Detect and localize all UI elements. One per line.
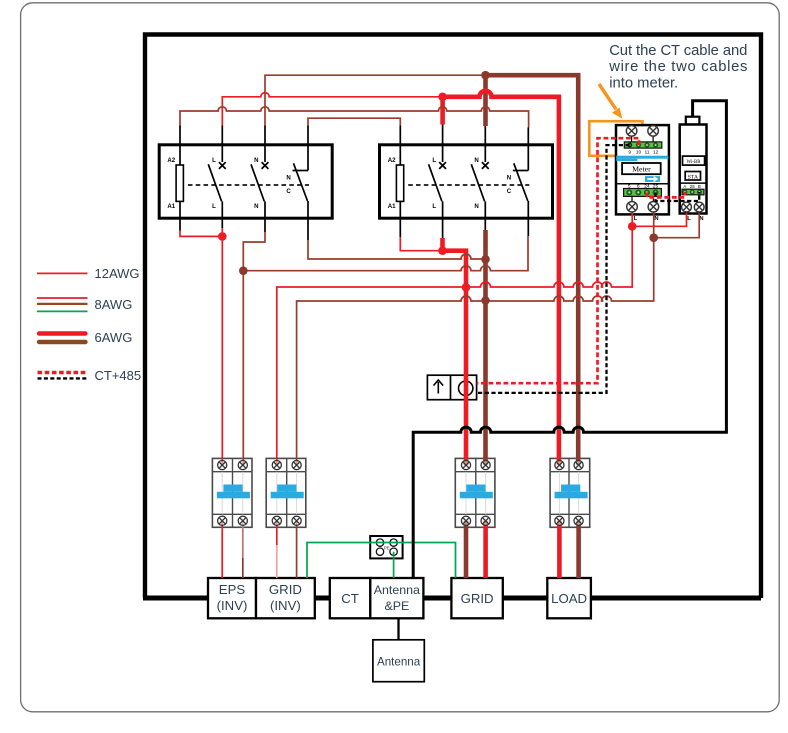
svg-text:A1: A1 — [167, 203, 175, 210]
legend 6AWG red line — [39, 331, 86, 335]
meter top screws — [626, 126, 658, 137]
meter-wifi black dashed cable — [656, 192, 700, 201]
node K2 L/A1 — [438, 246, 447, 255]
box CT — [330, 578, 371, 618]
legend CT red dashed line — [38, 371, 88, 374]
legend 8AWG red line — [37, 297, 88, 299]
svg-text:11: 11 — [644, 149, 649, 155]
box GRID (INV) — [256, 578, 315, 618]
wire 6AWG brown N stub contactor K2 — [483, 75, 488, 126]
svg-text:(INV): (INV) — [217, 598, 248, 613]
box EPS (INV) — [208, 578, 256, 618]
svg-text:L: L — [432, 203, 436, 210]
svg-text:Wi-BR: Wi-BR — [687, 160, 702, 165]
bottom bus line — [143, 596, 761, 601]
node K1 N bottom — [239, 266, 248, 275]
svg-text:N: N — [654, 216, 658, 222]
wire breaker QF2 L to meter L — [277, 211, 632, 465]
svg-text:C: C — [286, 188, 291, 195]
legend 8AWG brown line — [37, 303, 88, 305]
orange highlight box — [589, 121, 642, 156]
wire 6AWG red below breaker QF4 — [557, 521, 562, 578]
wire K1-L top to node — [222, 93, 442, 126]
legend 12AWG red line — [37, 272, 88, 274]
svg-text:A2: A2 — [167, 157, 175, 164]
wire breaker QF1 N down (dark part) — [242, 558, 244, 578]
CT sensor symbol — [427, 375, 476, 400]
wire breaker QF1 N down (light part) — [242, 521, 244, 558]
svg-text:wire the two cables: wire the two cables — [608, 59, 747, 75]
svg-text:N: N — [474, 203, 478, 210]
svg-text:GRID: GRID — [461, 591, 494, 606]
svg-text:(INV): (INV) — [270, 598, 301, 613]
node meter L — [628, 222, 637, 231]
meter-wifi red dashed cable — [647, 192, 685, 197]
svg-text:CT+485: CT+485 — [95, 368, 142, 383]
wire breaker QF2 N to meter N — [297, 211, 654, 465]
wire breaker QF2 L down (red part) — [276, 521, 278, 545]
antenna link wire — [397, 618, 399, 640]
wire breaker QF1 L down — [221, 521, 223, 578]
svg-text:L: L — [432, 157, 436, 164]
svg-text:6AWG: 6AWG — [95, 330, 133, 345]
wire breaker QF2 L down (pink part) — [276, 545, 278, 578]
wire breaker QF2 N down — [296, 521, 298, 578]
box LOAD — [547, 578, 591, 618]
box Antenna — [373, 640, 424, 682]
svg-text:N: N — [474, 157, 478, 164]
antenna coax wire — [413, 101, 726, 578]
svg-text:L: L — [212, 157, 216, 164]
diagram border — [145, 35, 761, 599]
meter bottom screws — [627, 202, 659, 213]
wire K1-NC to K2-A2 — [308, 118, 400, 125]
box GRID — [451, 578, 502, 618]
PE connector block — [370, 536, 402, 558]
CT red dashed cable — [477, 138, 639, 383]
svg-text:12AWG: 12AWG — [95, 266, 140, 281]
legend 6AWG brown line — [39, 340, 86, 344]
node GRID N lower — [481, 296, 490, 305]
svg-text:L: L — [687, 216, 691, 222]
node meter N — [649, 233, 658, 242]
legend 8AWG green line — [37, 310, 88, 312]
wire K1-N top to node — [265, 75, 486, 125]
wire K2-A1 to node — [400, 237, 442, 251]
svg-text:C: C — [507, 188, 512, 195]
wire 6AWG brown to LOAD breaker — [486, 75, 579, 465]
svg-text:L: L — [634, 216, 638, 222]
485 black dashed cable — [477, 145, 630, 393]
wifi module — [680, 117, 707, 214]
wire node to breaker QF1 N — [242, 271, 244, 465]
svg-text:N: N — [254, 157, 258, 164]
svg-text:8AWG: 8AWG — [95, 297, 133, 312]
svg-text:into meter.: into meter. — [609, 75, 678, 91]
breaker QF2 (GRID INV) — [266, 458, 306, 527]
svg-text:CT: CT — [341, 591, 359, 606]
svg-text:Meter: Meter — [632, 164, 651, 173]
wire wifi N to meter N node — [654, 212, 700, 238]
node K1-L top — [438, 93, 447, 102]
svg-text:Cut the CT cable and: Cut the CT cable and — [609, 43, 747, 59]
svg-text:GRID: GRID — [269, 582, 302, 597]
svg-text:STA: STA — [688, 175, 699, 181]
wire 6AWG red below breaker QF3 — [483, 521, 488, 578]
breaker QF4 (LOAD) — [550, 458, 590, 527]
svg-text:EPS: EPS — [219, 582, 246, 597]
wire K1-N bottom to node — [243, 232, 265, 271]
wire 6AWG brown GRID N — [483, 230, 488, 465]
svg-text:N: N — [286, 175, 290, 182]
wifi bottom screws — [682, 202, 705, 212]
svg-text:PE: PE — [384, 545, 390, 550]
svg-text:A1: A1 — [388, 203, 396, 210]
node K1 L/A1 — [218, 232, 227, 241]
wire 6AWG red to GRID breaker — [443, 238, 467, 465]
node GRID N upper — [481, 255, 490, 264]
legend 485 black dashed line — [38, 377, 88, 379]
svg-text:9: 9 — [628, 149, 631, 155]
svg-text:Antenna: Antenna — [374, 583, 420, 597]
wire 6AWG brown below breaker QF4 — [576, 521, 581, 578]
svg-text:12: 12 — [653, 149, 659, 155]
contactor K2 — [380, 125, 553, 239]
green PE wire GRID(INV) to GRID — [307, 543, 456, 579]
wire K1-A2 to K2-NC — [180, 107, 529, 128]
breaker terminal screws — [218, 461, 584, 526]
orange arrow — [599, 84, 622, 119]
wire 6AWG red to LOAD breaker — [443, 91, 559, 465]
svg-text:&PE: &PE — [384, 599, 409, 613]
wire node to K2-NC bottom — [243, 236, 528, 271]
wire K1-A1 to node — [180, 231, 222, 237]
green PE wire to Antenna&PE — [393, 552, 395, 578]
node K1-N top — [481, 71, 490, 80]
breaker QF1 (EPS) — [212, 458, 252, 527]
wire K1-NC bottom to GRID N node — [308, 240, 486, 259]
svg-text:A: A — [683, 184, 686, 189]
svg-text:25: 25 — [690, 184, 695, 189]
svg-text:10: 10 — [636, 149, 642, 155]
meter — [616, 125, 669, 214]
svg-text:A2: A2 — [388, 157, 396, 164]
wire 6AWG red L stub contactor K2 — [440, 97, 445, 125]
box Antenna&PE — [370, 578, 423, 618]
contactor K1 — [159, 126, 332, 241]
svg-text:Antenna: Antenna — [377, 655, 421, 668]
svg-text:LOAD: LOAD — [551, 591, 587, 606]
breaker QF3 (GRID) — [455, 458, 495, 527]
wire 6AWG brown below breaker QF3 — [464, 521, 469, 578]
wire wifi L to meter L node — [632, 212, 686, 226]
svg-text:N: N — [254, 203, 258, 210]
node GRID L — [462, 283, 471, 292]
svg-text:N: N — [507, 175, 511, 182]
wire node to breaker QF1 L — [221, 228, 223, 465]
svg-text:B: B — [698, 184, 701, 189]
svg-text:L: L — [212, 203, 216, 210]
